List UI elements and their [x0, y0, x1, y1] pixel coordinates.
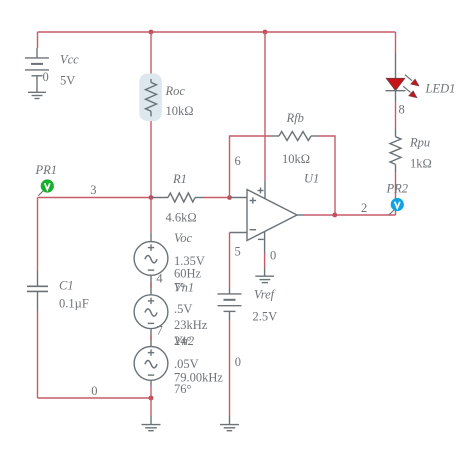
wire output to Rpu: [395, 172, 397, 215]
battery Vcc: [25, 48, 49, 92]
svg-text:7°: 7°: [174, 281, 185, 295]
LED LED1: [386, 53, 419, 101]
svg-text:.5V: .5V: [174, 302, 192, 316]
svg-text:C1: C1: [59, 279, 74, 293]
battery Vref: [218, 289, 242, 321]
junction node 3: [149, 195, 154, 200]
source Vn1: [134, 295, 168, 329]
wire C1 to node 0: [37, 311, 39, 398]
svg-text:LED1: LED1: [425, 82, 456, 96]
ground under Vref: [220, 416, 239, 431]
wire top rail: [38, 31, 396, 33]
wire Vn1 to Vn2: [150, 329, 152, 347]
junction output node 2: [332, 213, 337, 218]
capacitor C1: [27, 271, 48, 312]
wire Vcc to top rail: [37, 32, 39, 48]
op-amp U1: [230, 181, 298, 276]
op-amp output stub: [297, 214, 303, 216]
wire Vref to ground: [229, 320, 231, 416]
junction top rail / Roc: [149, 30, 154, 35]
resistor Rpu: [390, 129, 401, 172]
svg-text:7: 7: [157, 324, 163, 338]
svg-text:2: 2: [361, 201, 367, 215]
wire op-amp V+ supply: [264, 32, 266, 181]
wire top rail to LED1: [395, 32, 397, 53]
svg-text:3: 3: [90, 183, 96, 197]
ground under Vcc: [28, 92, 46, 98]
source Vn2: [134, 347, 168, 381]
wire Vn2 to node 0: [150, 380, 152, 386]
junction top rail / op-amp supply: [263, 30, 268, 35]
svg-text:PR1: PR1: [35, 163, 58, 177]
svg-text:4: 4: [156, 272, 163, 286]
svg-text:10kΩ: 10kΩ: [166, 104, 194, 118]
svg-text:R1: R1: [172, 172, 187, 186]
wire top rail to Roc: [150, 32, 152, 79]
svg-text:0: 0: [43, 70, 49, 84]
wire LED1 to Rpu: [395, 101, 397, 129]
wire Voc to Vn1: [150, 275, 152, 295]
svg-text:Rpu: Rpu: [409, 136, 430, 150]
wire node 3 to Voc: [150, 198, 152, 234]
svg-text:Rfb: Rfb: [286, 111, 304, 125]
svg-text:Vref: Vref: [254, 288, 276, 302]
junction node 6: [227, 195, 232, 200]
resistor Roc: [146, 79, 157, 117]
wire node 0 bottom: [38, 397, 152, 399]
svg-text:0: 0: [270, 249, 276, 263]
svg-text:2.5V: 2.5V: [253, 310, 278, 324]
wire Rfb right: [317, 136, 335, 215]
svg-text:6: 6: [235, 154, 241, 168]
wire op-amp V- to ground: [264, 253, 266, 268]
svg-text:0: 0: [235, 355, 241, 369]
resistor Roc highlight: [139, 74, 162, 122]
svg-text:60Hz: 60Hz: [174, 267, 202, 281]
svg-text:Vcc: Vcc: [60, 53, 79, 67]
probe PR1: [38, 179, 54, 195]
svg-text:PR2: PR2: [386, 182, 409, 196]
resistor R1: [151, 193, 203, 202]
probe PR2: [389, 198, 404, 215]
svg-text:.05V: .05V: [174, 357, 199, 371]
wire node 0 to ground: [150, 398, 152, 416]
svg-text:1kΩ: 1kΩ: [410, 157, 432, 171]
svg-text:23kHz: 23kHz: [174, 318, 208, 332]
svg-text:Roc: Roc: [165, 84, 186, 98]
svg-text:10kΩ: 10kΩ: [282, 152, 310, 166]
wire Rfb left: [230, 136, 271, 198]
wire node 3 to C1: [37, 198, 39, 271]
svg-text:8: 8: [399, 103, 405, 117]
svg-text:24°: 24°: [174, 334, 192, 348]
ground under op-amp: [255, 276, 274, 282]
svg-text:5: 5: [235, 245, 241, 259]
svg-text:5V: 5V: [60, 74, 75, 88]
resistor Rfb: [270, 132, 317, 141]
svg-text:4.6kΩ: 4.6kΩ: [166, 211, 197, 225]
junction node 0: [149, 396, 154, 401]
wire node 3 horizontal: [38, 197, 152, 199]
wire Roc to node 3: [150, 117, 152, 198]
svg-text:0: 0: [91, 384, 97, 398]
wire inverting input to Vref: [229, 233, 231, 289]
ground bottom center: [142, 416, 161, 431]
svg-text:U1: U1: [304, 172, 319, 186]
svg-text:76°: 76°: [174, 382, 192, 396]
svg-text:0.1µF: 0.1µF: [59, 297, 89, 311]
wire R1 to node 6: [203, 197, 230, 199]
svg-text:Voc: Voc: [174, 231, 193, 245]
wire op-amp output: [303, 214, 396, 216]
source Voc: [134, 233, 168, 275]
